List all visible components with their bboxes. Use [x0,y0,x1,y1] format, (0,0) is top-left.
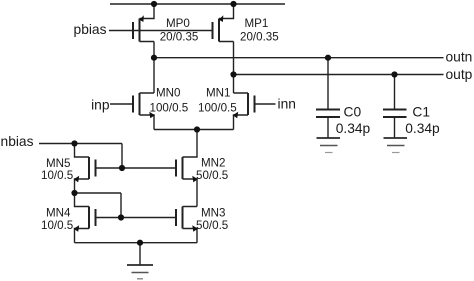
svg-text:inp: inp [91,97,110,112]
svg-text:MN5: MN5 [46,157,70,170]
svg-text:0.34p: 0.34p [405,121,440,136]
svg-text:50/0.5: 50/0.5 [196,169,228,182]
svg-text:MN1: MN1 [206,87,230,100]
svg-text:nbias: nbias [1,134,34,149]
svg-text:MN4: MN4 [46,207,71,220]
svg-text:C1: C1 [412,104,430,119]
svg-text:10/0.5: 10/0.5 [41,169,73,182]
svg-text:0.34p: 0.34p [336,121,371,136]
svg-text:20/0.35: 20/0.35 [160,31,199,44]
svg-text:outn: outn [446,50,473,65]
svg-text:100/0.5: 100/0.5 [198,101,237,114]
svg-text:20/0.35: 20/0.35 [240,31,279,44]
svg-text:pbias: pbias [74,22,107,37]
svg-text:100/0.5: 100/0.5 [150,101,189,114]
svg-text:10/0.5: 10/0.5 [41,219,73,232]
svg-text:50/0.5: 50/0.5 [196,219,228,232]
svg-text:inn: inn [278,97,296,112]
svg-text:MN2: MN2 [201,157,225,170]
svg-text:outp: outp [446,67,473,82]
svg-text:MP1: MP1 [245,17,269,30]
svg-text:MN3: MN3 [201,207,225,220]
svg-text:MP0: MP0 [166,17,190,30]
svg-text:MN0: MN0 [156,87,180,100]
svg-text:C0: C0 [344,104,362,119]
